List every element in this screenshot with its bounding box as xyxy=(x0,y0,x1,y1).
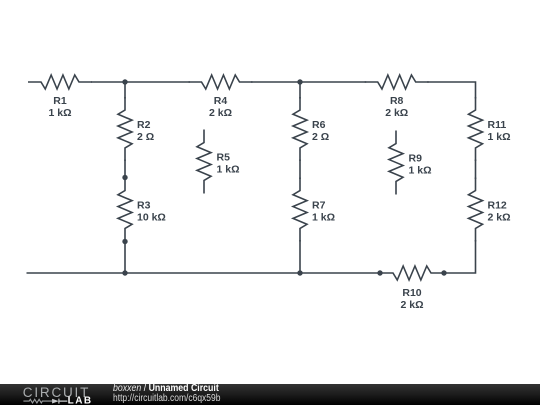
resistor R11 xyxy=(469,97,483,161)
footer line 2: url xyxy=(113,394,220,403)
resistor R6 xyxy=(293,97,307,161)
wire R2 to node B xyxy=(124,160,126,178)
svg-text:2 kΩ: 2 kΩ xyxy=(400,299,423,311)
wire bottom rail left segment xyxy=(27,272,382,274)
svg-text:2 kΩ: 2 kΩ xyxy=(385,107,408,119)
svg-text:R10: R10 xyxy=(402,287,421,299)
svg-text:R3: R3 xyxy=(137,200,151,212)
resistor R3 xyxy=(118,178,132,242)
wire R11 to R12 xyxy=(475,160,477,180)
footer line 1: author / title xyxy=(113,384,219,393)
wire top rail segment R4 to R8 xyxy=(251,81,366,83)
svg-text:2 Ω: 2 Ω xyxy=(137,131,154,143)
svg-text:R5: R5 xyxy=(217,152,231,164)
junction node B xyxy=(122,175,127,180)
wire node C down to bottom rail xyxy=(124,240,126,273)
wire node E down to R6 xyxy=(299,82,301,99)
svg-text:R1: R1 xyxy=(53,95,67,107)
resistor R1 xyxy=(28,75,92,89)
svg-text:R2: R2 xyxy=(137,119,151,131)
junction node C xyxy=(122,239,127,244)
svg-text:1 kΩ: 1 kΩ xyxy=(312,212,335,224)
junction node F bottom rail xyxy=(297,270,302,275)
junction node D bottom rail xyxy=(122,270,127,275)
svg-text:R6: R6 xyxy=(312,119,326,131)
logo resistor-diode symbol xyxy=(23,399,52,403)
wire R6 to R7 xyxy=(299,160,301,180)
svg-text:1 kΩ: 1 kΩ xyxy=(409,165,432,177)
resistor R4 xyxy=(189,75,253,89)
svg-text:LAB: LAB xyxy=(68,396,93,405)
svg-text:R9: R9 xyxy=(409,153,423,165)
resistor R10 xyxy=(380,266,444,280)
junction node H xyxy=(441,270,446,275)
svg-text:1 kΩ: 1 kΩ xyxy=(217,164,240,176)
wire top rail segment node A to R4 xyxy=(91,81,190,83)
resistor R8 xyxy=(365,75,429,89)
resistor R7 xyxy=(293,178,307,242)
svg-text:R11: R11 xyxy=(488,119,507,131)
resistor R9 (floating) xyxy=(389,131,403,195)
resistor R2 xyxy=(118,97,132,161)
svg-text:R7: R7 xyxy=(312,200,326,212)
svg-text:2 kΩ: 2 kΩ xyxy=(209,107,232,119)
resistor R12 xyxy=(469,178,483,242)
CircuitLab logo wordmark xyxy=(0,384,100,405)
svg-text:R12: R12 xyxy=(488,200,507,212)
wire R7 down to bottom rail xyxy=(299,240,301,273)
resistor R5 (floating) xyxy=(197,130,211,194)
wire top rail to right corner xyxy=(427,82,475,99)
svg-text:1 kΩ: 1 kΩ xyxy=(488,131,511,143)
junction node A xyxy=(122,79,127,84)
svg-text:10 kΩ: 10 kΩ xyxy=(137,212,166,224)
wire node A down to R2 xyxy=(124,82,126,99)
junction node E xyxy=(297,79,302,84)
junction node G xyxy=(377,270,382,275)
svg-text:R8: R8 xyxy=(390,95,404,107)
footer bar xyxy=(0,384,540,405)
svg-text:1 kΩ: 1 kΩ xyxy=(48,107,71,119)
wire right corner to R10 xyxy=(443,240,476,273)
svg-text:2 kΩ: 2 kΩ xyxy=(488,212,511,224)
svg-text:2 Ω: 2 Ω xyxy=(312,131,329,143)
svg-text:R4: R4 xyxy=(214,95,228,107)
